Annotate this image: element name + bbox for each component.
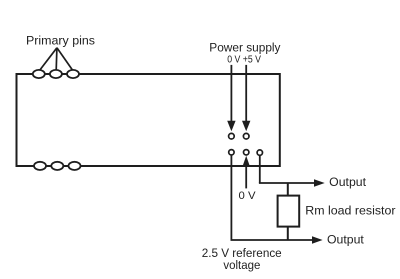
svg-text:voltage: voltage: [223, 258, 260, 272]
output pin circle C: [257, 150, 262, 155]
device body rectangle (transformer outline): [17, 74, 280, 166]
lower output wire (horizontal): [231, 239, 314, 241]
0V supply arrowhead: [227, 121, 235, 132]
resistor top lead: [287, 183, 289, 196]
upper output wire (vertical from pin C): [259, 155, 261, 183]
0V supply terminal circle: [229, 133, 235, 139]
svg-text:0 V +5 V: 0 V +5 V: [227, 55, 261, 66]
svg-text:Rm load resistor: Rm load resistor: [305, 203, 395, 217]
pointer line to primary pin 3: [57, 48, 73, 71]
upper output wire (horizontal): [259, 182, 315, 184]
pointer line to primary pin 1: [40, 48, 57, 71]
lower output arrowhead: [312, 236, 323, 243]
output pin circle A: [229, 150, 234, 155]
pointer line to primary pin 2: [55, 48, 58, 70]
svg-text:Output: Output: [329, 175, 366, 189]
svg-text:Power supply: Power supply: [209, 40, 281, 54]
output pin circle B (0V reference): [244, 150, 249, 155]
+5V supply wire: [245, 65, 247, 126]
resistor bottom lead: [287, 227, 289, 240]
svg-text:Primary pins: Primary pins: [26, 34, 95, 48]
0V sense arrowhead (pointing up): [243, 156, 250, 166]
secondary pin 1: [34, 162, 46, 170]
primary pin 1: [33, 70, 45, 78]
2.5V reference wire (vertical drop): [230, 155, 232, 240]
secondary pin 2: [51, 162, 63, 170]
secondary pin 3: [69, 162, 81, 170]
primary pin 3: [67, 70, 79, 78]
svg-text:Output: Output: [327, 232, 364, 246]
primary pin 2: [50, 70, 62, 78]
+5V supply terminal circle: [243, 133, 249, 139]
resistor Rm body: [278, 196, 300, 227]
0V sense wire stem: [245, 164, 247, 188]
0V supply wire: [230, 65, 232, 126]
upper output arrowhead: [314, 179, 325, 186]
svg-text:0 V: 0 V: [239, 190, 257, 202]
+5V supply arrowhead: [242, 121, 250, 132]
